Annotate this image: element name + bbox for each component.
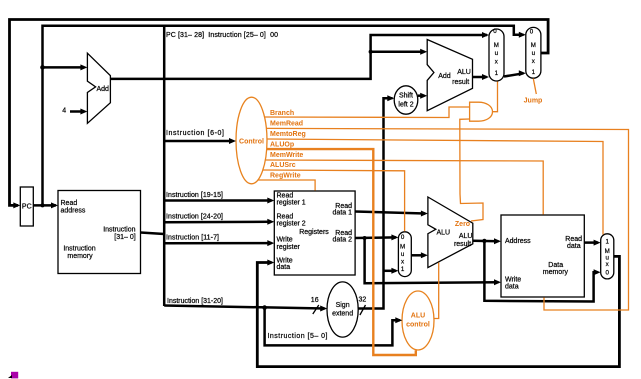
cursor artifact magenta square [11,372,18,379]
wire RegWrite signal to registers [258,180,316,191]
ALU main [428,197,473,268]
wire Branch signal to AND gate [265,107,470,118]
svg-text:Read: Read [277,214,294,221]
svg-text:memory: memory [543,269,569,276]
svg-text:ALU: ALU [459,233,473,240]
wire ALU result bypass down to final mux input 0 [484,241,598,302]
oval sign extend [327,282,358,337]
svg-text:Read: Read [277,193,294,200]
svg-text:0: 0 [493,28,497,35]
registers file [274,191,355,275]
svg-text:register 1: register 1 [277,200,306,207]
svg-text:Sign: Sign [336,302,350,309]
svg-text:1: 1 [605,238,609,245]
svg-text:1: 1 [532,69,536,76]
svg-text:M: M [531,42,536,49]
svg-text:u: u [401,251,405,258]
wire branch Add output to branch mux input 1 [473,76,487,79]
node junction PC+4 to branch add [369,50,373,54]
svg-text:Registers: Registers [299,229,329,236]
wire sign extend branch to ALUSrc mux input 1 [384,270,397,273]
svg-text:Zero: Zero [455,221,470,228]
wire ALU result to data memory Address [473,239,499,242]
arrowheads [13,202,20,208]
wire PC output to instruction memory read address [33,204,56,207]
wire jump address line (PC[31-28] | Instr[25-0] | 00) to jump mux input 0 [43,26,524,206]
svg-text:4: 4 [62,108,66,115]
wire Instruction[24-20] to Read register 2 [164,221,271,224]
svg-text:u: u [495,50,499,57]
wire sign extend output up to shift left 2 [358,98,392,308]
svg-text:PC: PC [22,204,32,211]
svg-text:M: M [494,42,499,49]
node junction PC to Add4 [40,65,45,70]
svg-text:0: 0 [605,270,609,277]
svg-text:register: register [277,244,301,251]
wire data memory Read data to final mux input 1 [584,241,598,244]
wire Instruction[31-20] to sign extend [164,306,324,309]
svg-text:Shift: Shift [399,93,413,100]
wire MemtoReg signal to final mux select [267,139,603,235]
wire Zero flag from ALU up to AND gate [460,119,483,221]
svg-text:MemtoReg: MemtoReg [270,131,306,138]
svg-text:ALUOp: ALUOp [270,142,294,149]
svg-text:memory: memory [67,253,93,260]
wire Instruction[6-0] to Control [164,140,231,143]
svg-text:result: result [454,241,471,248]
svg-text:0: 0 [401,234,405,241]
node junction ALU result branch [482,239,486,243]
svg-text:PC [31– 28] Instruction [25–: PC [31– 28] Instruction [25– 0] 00 [166,32,278,39]
svg-text:Read: Read [565,236,582,243]
wire Instruction[11-7] to Write register [164,242,271,245]
data memory [501,215,584,297]
node junction read data 2 branch [363,236,367,240]
svg-text:Write: Write [505,276,521,283]
svg-text:ALU: ALU [457,69,471,76]
node junction instruction to sign extend tap [262,305,267,310]
svg-text:Instruction [31-20]: Instruction [31-20] [167,298,223,305]
svg-text:1: 1 [495,70,499,77]
svg-text:Address: Address [505,238,531,245]
svg-text:u: u [532,50,536,57]
svg-text:Jump: Jump [524,98,543,105]
wire writeback from final mux around bottom to registers Write data [257,256,619,366]
svg-text:ALU: ALU [437,230,451,237]
wire PC+4 to branch Add top input [371,51,425,54]
svg-text:Instruction [11-7]: Instruction [11-7] [166,235,219,242]
wire Instruction[5-0] tap down and into ALU control [265,308,400,346]
svg-text:extend: extend [332,311,353,318]
svg-text:Control: Control [239,139,264,146]
svg-text:result: result [452,79,469,86]
svg-text:data 2: data 2 [333,237,353,244]
node junction PC output [41,203,45,207]
wire MemWrite signal to data memory top [265,160,543,215]
oval ALU control [402,291,434,350]
wire PC feedback from jump mux output around top-left to PC input [10,20,549,206]
svg-text:Add: Add [438,73,451,80]
wire Read data 1 to ALU top input [355,212,425,214]
wire ALUOp signal to ALU control [267,149,416,355]
mux MemtoReg final (1/0) [601,234,614,279]
svg-text:Write: Write [277,237,293,244]
svg-text:MemRead: MemRead [270,121,303,128]
svg-text:Read: Read [61,200,78,207]
slash bit width 32 [360,305,366,315]
wire Read data 2 branch down to data memory Write data [365,238,499,283]
svg-text:left 2: left 2 [398,102,413,109]
adder Add4 (PC+4) [87,53,110,123]
wire Instruction[19-15] to Read register 1 [164,199,271,202]
svg-text:1: 1 [401,266,405,273]
svg-text:data: data [567,243,581,250]
wire instruction memory output to instruction bus [141,233,165,235]
mux jump (0/1) top far right [526,27,541,78]
svg-text:data: data [505,283,519,290]
svg-text:M: M [400,244,405,251]
wire Add4 output up to branch mux input 0 [110,35,487,79]
instruction memory [58,191,141,274]
wire ALUSrc mux output to ALU bottom input [411,254,425,257]
svg-text:address: address [61,207,86,214]
svg-text:[31– 0]: [31– 0] [114,234,135,241]
svg-text:Instruction [5– 0]: Instruction [5– 0] [268,333,328,340]
svg-text:Branch: Branch [270,110,294,117]
svg-text:Instruction: Instruction [63,246,95,253]
wire ALU control output to ALU [434,263,439,319]
svg-text:MemWrite: MemWrite [270,152,303,159]
slash bit width 16 [313,305,319,314]
svg-text:register 2: register 2 [277,221,306,228]
wire Read data 2 to ALUSrc mux input 0 [355,236,396,239]
register PC [20,187,33,226]
oval Control [236,97,267,184]
svg-text:16: 16 [311,297,319,304]
svg-text:ALU: ALU [411,313,425,320]
svg-text:Instruction [24-20]: Instruction [24-20] [166,213,223,220]
wire ALUSrc signal to ALUSrc mux select [263,170,405,231]
wire Jump signal stub to jump mux select [533,79,536,95]
wire constant 4 into Add4 [70,110,84,113]
svg-text:Instruction: Instruction [103,226,135,233]
wire MemRead signal to data memory bottom [266,128,628,310]
svg-text:RegWrite: RegWrite [270,173,301,180]
svg-text:ALUSrc: ALUSrc [270,162,296,169]
wire instruction bus vertical [163,26,166,306]
svg-text:Instruction [6-0]: Instruction [6-0] [166,130,224,137]
mux ALUSrc (0/1) [398,232,411,277]
svg-text:control: control [406,322,430,329]
adder branch Add [427,40,472,111]
oval shift left 2 [394,86,418,114]
wire branch mux output to jump mux input 1 [504,73,524,76]
svg-text:Instruction [19-15]: Instruction [19-15] [166,192,223,199]
wire AND gate output to branch mux select [493,82,498,112]
svg-text:Add: Add [97,86,110,93]
mux branch (0/1) top right [489,29,504,81]
svg-text:32: 32 [359,297,367,304]
svg-text:0: 0 [530,28,534,35]
svg-text:data 1: data 1 [333,209,353,216]
svg-text:data: data [277,264,291,271]
gate AND (branch and zero) [470,102,493,121]
wire shift left 2 output to branch Add bottom input [418,94,425,97]
wire PC to Add4 top input [43,66,85,69]
